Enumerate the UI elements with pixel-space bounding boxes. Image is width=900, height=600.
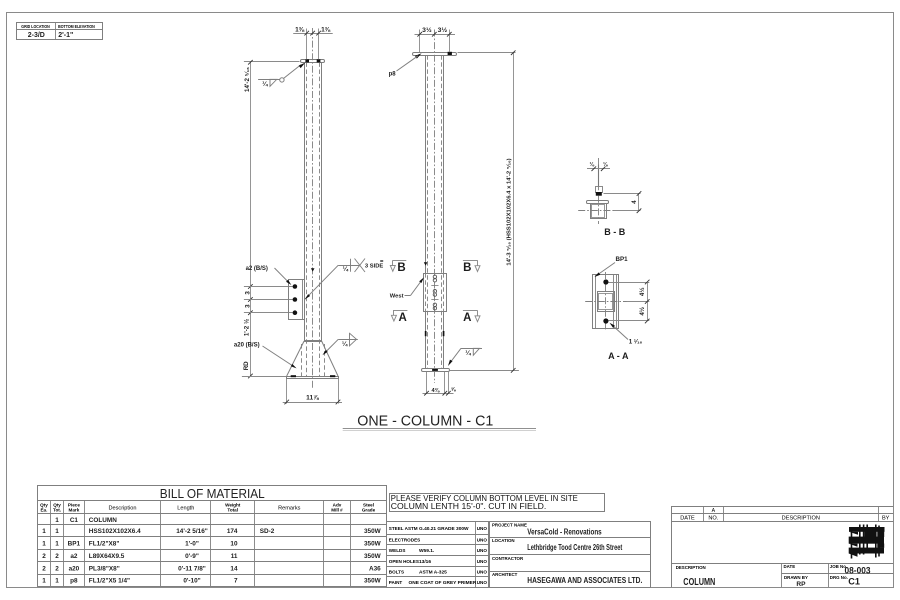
svg-text:⅝: ⅝	[451, 387, 456, 393]
svg-text:A: A	[398, 312, 406, 324]
svg-text:13/16: 13/16	[419, 559, 431, 565]
svg-text:BOTTOM ELEVATION: BOTTOM ELEVATION	[58, 24, 95, 29]
svg-text:14'-3 ⁵⁄₁₆ (HSS102X102X6.4 x 1: 14'-3 ⁵⁄₁₆ (HSS102X102X6.4 x 14'-2 ⁵⁄₁₆)	[506, 158, 512, 265]
svg-text:HASEGAWA AND ASSOCIATES LTD.: HASEGAWA AND ASSOCIATES LTD.	[527, 575, 642, 585]
svg-text:ARCHITECT: ARCHITECT	[492, 572, 518, 577]
svg-text:Adv: Adv	[333, 502, 342, 507]
svg-text:Tot.: Tot.	[53, 508, 61, 513]
svg-text:FL1/2"X8": FL1/2"X8"	[89, 541, 120, 548]
svg-text:4⅜: 4⅜	[432, 388, 440, 394]
svg-text:LOCATION: LOCATION	[492, 538, 515, 543]
svg-text:p8: p8	[389, 72, 397, 78]
svg-text:Qty: Qty	[53, 502, 61, 507]
svg-text:a2: a2	[70, 553, 78, 560]
svg-text:Remarks: Remarks	[278, 506, 301, 512]
svg-text:BP1: BP1	[616, 256, 629, 263]
svg-text:4: 4	[631, 200, 638, 204]
svg-text:B - B: B - B	[604, 227, 625, 237]
svg-text:1: 1	[55, 528, 59, 535]
svg-text:ONE COAT OF GREY PRIMER: ONE COAT OF GREY PRIMER	[409, 580, 477, 586]
svg-text:Steel: Steel	[363, 502, 374, 507]
svg-text:FL1/2"X5 1/4": FL1/2"X5 1/4"	[89, 578, 130, 585]
svg-text:174: 174	[227, 528, 238, 535]
svg-text:Qty: Qty	[40, 502, 48, 507]
svg-text:1⅜: 1⅜	[321, 27, 331, 34]
svg-text:PL3/8"X8": PL3/8"X8"	[89, 565, 120, 572]
svg-text:Weight: Weight	[225, 502, 241, 507]
svg-text:¼: ¼	[262, 80, 268, 88]
svg-text:1⅜: 1⅜	[295, 27, 305, 34]
svg-text:1: 1	[55, 578, 59, 585]
svg-text:ONE - COLUMN - C1: ONE - COLUMN - C1	[357, 413, 493, 430]
svg-text:3 SIDE: 3 SIDE	[365, 264, 383, 270]
svg-text:VersaCold - Renovations: VersaCold - Renovations	[527, 526, 602, 536]
svg-text:A: A	[463, 312, 471, 324]
svg-text:Mark: Mark	[69, 508, 80, 513]
svg-text:1: 1	[42, 541, 46, 548]
svg-text:2: 2	[42, 553, 46, 560]
svg-text:Grade: Grade	[362, 508, 376, 513]
svg-text:Ea.: Ea.	[40, 508, 47, 513]
svg-text:3½: 3½	[422, 26, 432, 34]
svg-text:3: 3	[244, 291, 251, 295]
svg-text:UNO: UNO	[477, 548, 488, 553]
svg-text:0'-9": 0'-9"	[185, 553, 199, 560]
svg-text:2-3/D: 2-3/D	[28, 32, 45, 39]
svg-text:BOLTS: BOLTS	[389, 570, 404, 575]
svg-text:UNO: UNO	[477, 580, 488, 585]
svg-text:3: 3	[244, 304, 251, 308]
svg-text:Length: Length	[177, 506, 194, 512]
svg-text:DESCRIPTION: DESCRIPTION	[782, 516, 820, 522]
svg-text:PAINT: PAINT	[389, 580, 403, 585]
svg-text:350W: 350W	[364, 578, 382, 585]
svg-text:CONTRACTOR: CONTRACTOR	[492, 556, 524, 561]
svg-text:3½: 3½	[438, 26, 448, 34]
svg-text:2'-1": 2'-1"	[58, 32, 73, 39]
svg-text:1: 1	[55, 517, 59, 524]
svg-text:COLUMN LENTH 15'-0". CUT IN FI: COLUMN LENTH 15'-0". CUT IN FIELD.	[391, 501, 547, 511]
svg-text:4½: 4½	[639, 307, 646, 316]
svg-text:A: A	[712, 508, 716, 514]
svg-text:OPEN HOLES: OPEN HOLES	[389, 559, 419, 564]
svg-text:10: 10	[230, 541, 238, 548]
svg-text:G.40.21 GRADE 300W: G.40.21 GRADE 300W	[419, 526, 469, 532]
svg-text:a2 (B/S): a2 (B/S)	[246, 266, 268, 272]
svg-text:PROJECT NAME: PROJECT NAME	[492, 523, 527, 528]
svg-text:BILL OF MATERIAL: BILL OF MATERIAL	[160, 486, 265, 501]
svg-text:BY: BY	[882, 516, 890, 522]
svg-text:a20: a20	[69, 565, 80, 572]
svg-text:2: 2	[55, 553, 59, 560]
svg-text:RP: RP	[796, 581, 806, 588]
svg-text:B: B	[463, 262, 471, 274]
svg-text:¼: ¼	[465, 349, 471, 357]
svg-text:A - A: A - A	[608, 351, 629, 361]
svg-text:West: West	[390, 293, 404, 299]
svg-text:11⅞: 11⅞	[306, 394, 319, 401]
svg-text:Piece: Piece	[68, 502, 80, 507]
svg-text:UNO: UNO	[477, 559, 488, 564]
svg-text:⅛: ⅛	[603, 162, 608, 168]
svg-text:350W: 350W	[364, 528, 382, 535]
svg-text:0'-11 7/8": 0'-11 7/8"	[178, 565, 206, 572]
svg-text:¼: ¼	[342, 340, 348, 348]
svg-text:Description: Description	[108, 506, 136, 512]
svg-text:HSS102X102X6.4: HSS102X102X6.4	[89, 528, 141, 535]
svg-text:SD-2: SD-2	[260, 528, 275, 535]
svg-text:1 ¹⁄₁₆: 1 ¹⁄₁₆	[629, 339, 643, 346]
svg-text:B: B	[397, 262, 405, 274]
svg-text:UNO: UNO	[477, 538, 488, 543]
svg-text:BP1: BP1	[68, 541, 81, 548]
svg-text:Total: Total	[227, 508, 238, 513]
svg-text:ELECTRODES: ELECTRODES	[389, 538, 420, 543]
svg-text:A36: A36	[369, 565, 381, 572]
svg-text:L89X64X9.5: L89X64X9.5	[89, 553, 125, 560]
svg-text:¼: ¼	[343, 265, 349, 273]
svg-text:14'-2 ⁵⁄₁₆: 14'-2 ⁵⁄₁₆	[244, 67, 251, 92]
svg-text:1: 1	[42, 528, 46, 535]
svg-text:4½: 4½	[639, 287, 646, 296]
svg-text:a20 (B/S): a20 (B/S)	[234, 343, 260, 349]
svg-text:⅛: ⅛	[590, 162, 595, 168]
svg-text:08-003: 08-003	[845, 565, 871, 575]
svg-text:DESCRIPTION: DESCRIPTION	[676, 565, 706, 570]
svg-text:UNO: UNO	[477, 570, 488, 575]
svg-text:DATE: DATE	[680, 516, 695, 522]
svg-text:RD: RD	[243, 361, 250, 370]
svg-text:COLUMN: COLUMN	[89, 517, 117, 524]
svg-text:1: 1	[42, 578, 46, 585]
svg-text:WELDS: WELDS	[389, 548, 406, 553]
svg-text:DATE: DATE	[784, 564, 796, 569]
svg-text:NO.: NO.	[708, 516, 718, 522]
svg-text:2: 2	[42, 565, 46, 572]
svg-text:1: 1	[55, 541, 59, 548]
svg-text:C1: C1	[848, 577, 860, 588]
svg-text:Lethbridge Tood Centre 26th St: Lethbridge Tood Centre 26th Street	[527, 542, 622, 552]
svg-text:DRAWN BY: DRAWN BY	[784, 575, 808, 580]
svg-text:STEEL ASTM: STEEL ASTM	[389, 526, 418, 531]
svg-text:C1: C1	[70, 517, 79, 524]
svg-text:W59.1.: W59.1.	[419, 548, 434, 554]
svg-text:2: 2	[55, 565, 59, 572]
svg-text:ASTM A-325: ASTM A-325	[419, 570, 447, 576]
svg-text:0'-10": 0'-10"	[183, 578, 200, 585]
svg-text:1'-0": 1'-0"	[185, 541, 199, 548]
svg-text:350W: 350W	[364, 553, 382, 560]
svg-text:350W: 350W	[364, 541, 382, 548]
svg-text:UNO: UNO	[477, 526, 488, 531]
svg-text:COLUMN: COLUMN	[683, 576, 715, 588]
svg-text:14'-2 5/16": 14'-2 5/16"	[176, 528, 208, 535]
svg-text:11: 11	[231, 553, 238, 560]
svg-text:Mill #: Mill #	[331, 508, 343, 513]
svg-text:14: 14	[230, 565, 238, 572]
svg-text:DRG No.: DRG No.	[830, 575, 848, 580]
svg-text:7: 7	[234, 578, 238, 585]
svg-text:1'-2 ½: 1'-2 ½	[244, 319, 251, 336]
svg-text:GRID LOCATION: GRID LOCATION	[21, 24, 49, 29]
svg-text:p8: p8	[70, 578, 78, 585]
